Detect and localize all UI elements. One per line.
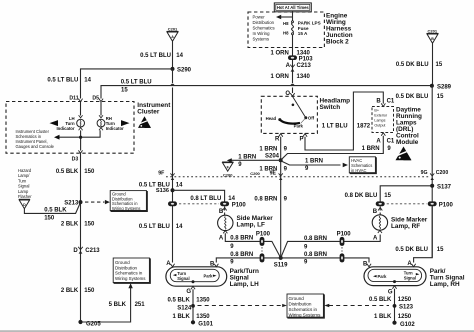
pin B of side marker LF (219, 206, 227, 215)
svg-text:P100: P100 (439, 202, 454, 208)
value label 1 ORN 1340 (lower) (270, 74, 310, 80)
wire BLK 150 from D3 down to G205 (80, 153, 82, 322)
reference text Power Distribution Schematics in Wiring Systems (253, 15, 275, 42)
wire hop over DK BLU wire at x292.5 (290, 84, 295, 86)
wire BLK 150 from flasher to S213 (24, 202, 80, 213)
value label 0.5 LT BLU 14 (below P100) (139, 224, 183, 230)
label Instrument Cluster (137, 102, 171, 115)
svg-text:Distribution: Distribution (289, 301, 312, 306)
fuse PARK LPS 15 A (292, 21, 294, 35)
wire 5 BLK 251 from ground box to G205 (82, 283, 133, 322)
svg-text:Distribution: Distribution (253, 20, 275, 25)
svg-text:S119: S119 (274, 262, 288, 268)
svg-text:0.5 BLK: 0.5 BLK (56, 169, 79, 175)
svg-text:Block 2: Block 2 (326, 38, 349, 45)
pin B of LH lamp (210, 261, 218, 267)
pin D11 of instrument cluster (69, 96, 82, 102)
svg-text:251: 251 (135, 302, 146, 308)
svg-text:1 BRN: 1 BRN (259, 166, 277, 172)
splice S290 (171, 67, 192, 74)
wire S289 down to pin 9G of C200 (431, 86, 433, 258)
svg-text:Schematics: Schematics (253, 26, 275, 31)
svg-text:C213: C213 (85, 248, 100, 254)
pin A of RH lamp (407, 261, 415, 267)
RH lamp internal bulbs circuit (368, 269, 422, 283)
dashed link between P100 grommets (179, 203, 219, 205)
svg-text:S290: S290 (177, 68, 192, 74)
svg-text:Park: Park (378, 274, 388, 279)
pin B of RH lamp (363, 261, 371, 267)
value label 0.8 BRN 9 (LH B to S119) (230, 252, 253, 266)
splice S137 (430, 184, 451, 191)
svg-text:H8: H8 (283, 31, 289, 36)
svg-text:150: 150 (84, 222, 95, 228)
value label 2 BLK 150 (above C213) (61, 222, 95, 228)
reference text Instrument Cluster Schematics in Instrument Panel, Gauges and Console (16, 129, 55, 149)
value label 0.5 LT BLU 15 (left end of long wire) (121, 79, 152, 93)
wire BRN 9 from side marker LF to S119 (225, 233, 280, 258)
svg-text:D: D (73, 248, 78, 254)
dashed reference link S123 to ground distribution box (324, 304, 389, 308)
svg-text:S124: S124 (177, 305, 192, 311)
junction (indicator return) (79, 136, 82, 139)
connector P100 grommet (RH park wire) (340, 253, 345, 262)
svg-text:0.5 LT BLU: 0.5 LT BLU (139, 224, 170, 230)
label B+ Exterior Lamps Output (374, 109, 387, 128)
pin A of side marker RF (373, 230, 382, 241)
svg-text:H8: H8 (283, 21, 289, 26)
svg-text:2 BLK: 2 BLK (61, 222, 79, 228)
arrow to other cluster circuits (left) (50, 120, 59, 126)
connector P103 (grommet) (288, 55, 313, 62)
arrow to power distribution reference (276, 15, 293, 20)
ground G205 (78, 320, 101, 327)
value label 2 BLK 150 (below C213) (61, 288, 95, 294)
connector C201 cavity A (triangle) (167, 27, 179, 42)
connector C213 pin A (in-line symbol) (286, 63, 312, 72)
value label 1 BRN 9 (below S204) (259, 166, 287, 172)
label Park/Turn Signal Lamp, RH (430, 268, 465, 288)
svg-text:15: 15 (436, 62, 443, 68)
svg-text:G: G (388, 290, 393, 296)
svg-text:1340: 1340 (297, 74, 311, 80)
svg-text:1 LT BLU: 1 LT BLU (322, 124, 348, 130)
svg-text:150: 150 (84, 169, 95, 175)
splice S119 (274, 256, 288, 268)
svg-text:D11: D11 (69, 96, 78, 102)
svg-text:14: 14 (176, 224, 183, 230)
svg-text:R: R (275, 137, 280, 143)
svg-text:in HVAC: in HVAC (351, 168, 366, 173)
connector C201 cavity B (triangle) (427, 29, 439, 44)
dashed reference link S213 to ground distribution (85, 200, 110, 204)
value label 0.8 LT BLU 14 (190, 196, 235, 202)
wire D5 to RH indicator bulb (100, 102, 102, 116)
wire from S290 left and down to cluster pin D11 (81, 69, 173, 99)
svg-text:P100: P100 (232, 202, 247, 208)
svg-text:C201: C201 (168, 27, 178, 32)
wire BRN 9 from S204 to HVAC reference (281, 161, 348, 167)
reference box Ground Distribution Schematics in Wiring Systems (above G205) (113, 258, 150, 283)
svg-text:Flasher: Flasher (18, 194, 32, 199)
dashed reference link S124 to ground distribution box (198, 305, 282, 307)
svg-text:0.8 BRN: 0.8 BRN (304, 252, 327, 258)
svg-text:Wiring Systems: Wiring Systems (115, 276, 146, 281)
value label 0.8 BRN 9 (S119 to RH B) (304, 252, 327, 266)
value label 0.5 BLK 1250 (369, 297, 412, 303)
svg-text:Wiring Systems: Wiring Systems (112, 206, 140, 211)
wire DK BLU 15 from C201-B down to S289 (432, 44, 434, 86)
value label 1 ORN 1340 (upper) (270, 51, 310, 57)
lamp LH Turn Indicator (56, 115, 84, 131)
svg-text:D5: D5 (92, 96, 99, 102)
svg-text:5 BLK: 5 BLK (109, 302, 127, 308)
svg-text:0.5 BLK: 0.5 BLK (167, 298, 190, 304)
svg-text:Module: Module (396, 139, 419, 146)
svg-text:1 ORN: 1 ORN (270, 74, 288, 80)
svg-text:Signal: Signal (404, 275, 416, 280)
svg-text:B+: B+ (374, 109, 379, 113)
svg-text:0.8 LT BLU: 0.8 LT BLU (190, 196, 221, 202)
value label 1 BLK 1250 (374, 314, 412, 320)
svg-text:1 BRN: 1 BRN (259, 146, 277, 152)
svg-text:In Wiring: In Wiring (253, 31, 271, 36)
svg-text:A: A (373, 235, 378, 241)
wire BRN 9 from LH lamp pin B through S119 to RH lamp pin B (216, 258, 369, 263)
headlamp switch contacts and arm (266, 96, 315, 128)
pin D5 of instrument cluster (92, 96, 103, 102)
label Hazard Lamp/Turn Signal Lamp Flasher (18, 168, 32, 199)
connector P100 grommet (main LT BLU wire) (168, 201, 177, 206)
svg-text:S204: S204 (265, 154, 280, 160)
svg-text:1250: 1250 (398, 297, 412, 303)
svg-text:0.8 BRN: 0.8 BRN (254, 197, 277, 203)
value label 0.5 LT BLU 14 (above S290) (140, 53, 184, 59)
dashed link between P100 grommets (right pair) (341, 247, 343, 252)
svg-text:B: B (376, 99, 381, 105)
svg-text:G: G (186, 289, 191, 295)
svg-text:Lamp, LF: Lamp, LF (237, 222, 265, 229)
svg-text:1 BRN: 1 BRN (362, 146, 380, 152)
value label 0.8 BRN 9 (S119 to RF) (304, 236, 327, 251)
svg-text:Switch: Switch (320, 104, 341, 111)
svg-text:Lamp, LH: Lamp, LH (230, 281, 259, 288)
label Side Marker Lamp, LF (237, 215, 274, 229)
instrument cluster (dashed box) (6, 102, 134, 154)
svg-text:C1: C1 (387, 138, 395, 144)
wire hop over DK BLU wire at x172.5 (170, 84, 175, 86)
value label 0.5 BLK 1350 (167, 298, 210, 304)
value label 5 BLK 251 (109, 302, 146, 308)
label Park/Turn Signal Lamp, LH (230, 268, 259, 288)
svg-text:1 ORN: 1 ORN (270, 51, 288, 57)
svg-text:Power: Power (253, 15, 266, 20)
ground G102 (392, 321, 415, 329)
pin A of LH lamp (166, 261, 174, 267)
wire BRN 9 from S204 left to C200 cavity F (227, 158, 281, 162)
value label PARK LPS Fuse 15 A (298, 21, 321, 36)
svg-text:15 A: 15 A (298, 31, 308, 36)
splice S289 (430, 84, 452, 91)
dashed link between P100 grommets (upper right pair) (387, 203, 427, 205)
svg-text:Schematics in: Schematics in (115, 271, 143, 276)
label Daytime Running Lamps (DRL) Control Module (396, 106, 422, 145)
svg-text:A: A (376, 138, 381, 144)
wire BLK 1250 from RH lamp G to G102 (394, 289, 396, 323)
svg-text:2 BLK: 2 BLK (61, 288, 79, 294)
wire S204 branch down to S119 (280, 162, 282, 256)
svg-text:0.8 BRN: 0.8 BRN (304, 236, 327, 242)
svg-text:A: A (286, 63, 291, 69)
svg-text:0.8 BRN: 0.8 BRN (230, 252, 253, 258)
value label 0.5 BLK 150 (56, 169, 95, 175)
svg-text:0.5 LT BLU: 0.5 LT BLU (121, 79, 152, 85)
headlamp switch (dashed box) (261, 96, 317, 133)
value label 0.5 LT BLU 14 (above S136) (139, 183, 183, 189)
svg-text:Ground: Ground (289, 296, 305, 301)
svg-text:P: P (299, 137, 303, 143)
svg-text:D: D (23, 203, 26, 207)
pin G of RH lamp (388, 286, 397, 296)
svg-text:1872: 1872 (357, 124, 371, 130)
svg-text:0.5 DK BLU: 0.5 DK BLU (396, 94, 429, 100)
svg-text:15: 15 (384, 193, 391, 199)
svg-text:Schematics in: Schematics in (289, 307, 318, 312)
connector C200 (dotted separator line) (166, 176, 429, 178)
value label 0.5 DK BLU 15 (below S289) (396, 94, 445, 100)
svg-text:G102: G102 (400, 322, 415, 328)
value label 1 BLK 1350 (172, 314, 210, 320)
label Side Marker Lamp, RF (391, 216, 428, 230)
connector C213 pin D (in-line symbol) (73, 247, 100, 254)
value label 0.5 DK BLU 15 (to RH lamp) (395, 247, 444, 253)
scan artifact bottom edge (0, 330, 474, 332)
svg-text:P103: P103 (299, 56, 314, 62)
svg-text:0.5 DK BLU: 0.5 DK BLU (396, 62, 429, 68)
svg-text:S137: S137 (437, 185, 452, 191)
svg-text:Lamp, RF: Lamp, RF (391, 223, 420, 230)
splice S204 (265, 154, 283, 163)
connector P100 grommet (side marker LF feed) (220, 201, 246, 208)
connector P100 grommet (LF turn wire) (256, 231, 271, 246)
svg-text:A: A (171, 35, 174, 39)
svg-text:Hot At All Times: Hot At All Times (277, 5, 310, 10)
svg-text:0.5 LT BLU: 0.5 LT BLU (47, 78, 78, 84)
LH lamp internal bulbs circuit (170, 269, 219, 283)
svg-text:S136: S136 (156, 188, 169, 194)
wire from Hot At All Times into fuse (292, 11, 294, 21)
pin D3 of instrument cluster (72, 150, 83, 162)
svg-text:0.8 DK BLU: 0.8 DK BLU (345, 193, 378, 199)
wire BRN 9 from S119 to side marker RF (281, 235, 381, 258)
label Engine Wiring Harness Junction Block 2 (326, 12, 353, 45)
lamp Park/Turn Signal RH (housing) (364, 267, 426, 286)
svg-text:1350: 1350 (196, 298, 210, 304)
value label 0.5 DK BLU 15 (above S289) (396, 62, 443, 68)
svg-text:14: 14 (228, 196, 235, 202)
pin B of side marker RF (373, 206, 383, 215)
pin R of headlamp switch (275, 134, 283, 143)
value label 1 BRN 9 (R wire) (259, 146, 287, 152)
svg-text:Lamps: Lamps (374, 119, 385, 123)
connector P100 grommet (RF feed) (376, 201, 385, 206)
junction block Engine Wiring Harness Junction Block 2 (dashed box) (248, 12, 324, 48)
svg-text:Indicator: Indicator (56, 126, 74, 131)
wire branch S136 to side marker LF (173, 190, 225, 201)
lamp Side Marker LF (218, 215, 233, 230)
svg-text:Wiring Systems: Wiring Systems (289, 312, 322, 317)
value label 1 LT BLU 1872 (322, 124, 371, 130)
svg-text:Systems: Systems (253, 37, 269, 42)
pin A C1 of DRL module (376, 133, 395, 145)
DRL control module (dashed box) (372, 107, 394, 133)
wire LT BLU 1872 from P to DRL pin B (305, 92, 383, 150)
ESD symbol (instrument cluster) (138, 116, 151, 128)
svg-text:Off: Off (308, 115, 315, 120)
lamp RH Turn Indicator (97, 115, 124, 131)
svg-text:1 BLK: 1 BLK (172, 314, 190, 320)
value label 0.8 BRN 9 (LF to P100) (230, 236, 253, 251)
value label 0.5 LT BLU 14 (D11 wire) (47, 78, 91, 84)
splice S123 (393, 304, 414, 311)
svg-text:C201: C201 (428, 29, 438, 34)
reference box Ground Distribution Schematics in Wiring Systems (bottom) (287, 294, 324, 318)
svg-text:1 BRN: 1 BRN (238, 154, 256, 160)
arrowhead into bottom ground box (left side) (282, 304, 287, 307)
svg-text:1 BLK: 1 BLK (374, 314, 392, 320)
svg-text:9G: 9G (421, 170, 428, 176)
svg-text:C200: C200 (436, 170, 449, 176)
svg-text:Ground: Ground (115, 260, 130, 265)
svg-text:Park: Park (204, 273, 214, 278)
svg-text:Lamp, RH: Lamp, RH (430, 281, 460, 288)
splice S136 (156, 188, 175, 194)
svg-text:15: 15 (121, 88, 128, 94)
wire DK BLU 15 from RH indicator D5 across to S289 (101, 86, 432, 99)
svg-text:S213: S213 (64, 201, 79, 207)
svg-text:S289: S289 (437, 84, 452, 90)
svg-text:Indicator: Indicator (106, 126, 124, 131)
wire BLK 1350 from LH lamp G to G101 (192, 289, 194, 322)
pin O of headlamp switch (285, 91, 294, 97)
power label Hot At All Times (274, 3, 311, 12)
value label 0.8 BRN 9 (above S119) (254, 197, 287, 203)
value label 1 BRN 9 (HVAC branch) (305, 159, 323, 172)
label Headlamp Switch (320, 98, 351, 112)
pin A of side marker LF (219, 231, 228, 242)
splice S124 (177, 304, 195, 311)
value label 1 BRN 9 (DRL output wire) (362, 146, 392, 152)
value label 0.8 DK BLU 15 (345, 193, 392, 199)
value label 0.5 BLK 150 (flasher wire) (44, 207, 67, 221)
wire DK BLU 15 from P100 down to RH lamp pin A (414, 206, 433, 262)
reference box HVAC Schematics in HVAC (349, 157, 376, 173)
wire BRN 9 from R down to S204 (280, 137, 282, 159)
svg-text:1 BRN: 1 BRN (305, 159, 323, 165)
pin 9F of C200 (158, 171, 174, 180)
wire RF side marker branch from S137 (380, 186, 432, 202)
value label 1 BRN 9 (C200 branch) (238, 154, 256, 168)
lamp Side Marker RF (372, 215, 387, 230)
svg-text:A: A (219, 235, 224, 241)
svg-text:Distribution: Distribution (115, 265, 138, 270)
pin 9E of C200 (270, 171, 283, 180)
wire D11 to LH indicator bulb (80, 102, 82, 116)
svg-text:14: 14 (176, 53, 183, 59)
pin 9G of C200 (421, 170, 449, 180)
connector P100 grommet (main DK BLU wire) (428, 201, 454, 208)
reference box Ground Distribution Schematics in Wiring Systems (right of S213) (110, 191, 147, 211)
svg-text:150: 150 (44, 216, 55, 222)
svg-text:Signal: Signal (177, 276, 189, 281)
svg-text:C200: C200 (223, 172, 233, 177)
svg-text:P100: P100 (337, 231, 352, 237)
splice S213 (64, 200, 82, 207)
svg-text:Head: Head (266, 116, 277, 121)
svg-text:G101: G101 (198, 322, 213, 328)
svg-text:Output: Output (374, 124, 385, 128)
pin B C1 of DRL module (376, 99, 395, 107)
svg-text:15: 15 (437, 247, 444, 253)
svg-text:C213: C213 (297, 63, 312, 69)
connector P100 grommet (RF turn wire) (337, 231, 352, 246)
svg-text:Cluster: Cluster (137, 109, 160, 116)
svg-text:0.5 BLK: 0.5 BLK (369, 297, 392, 303)
lamp Park/Turn Signal LH (housing) (166, 267, 227, 286)
svg-text:150: 150 (84, 288, 95, 294)
svg-text:14: 14 (176, 183, 183, 189)
svg-text:D3: D3 (72, 157, 79, 163)
svg-text:15: 15 (437, 94, 444, 100)
svg-text:S123: S123 (399, 305, 414, 311)
svg-text:9F: 9F (158, 171, 164, 177)
svg-text:0.5 DK BLU: 0.5 DK BLU (395, 247, 428, 253)
svg-text:Gauges and Console: Gauges and Console (16, 144, 55, 149)
svg-text:0.8 BRN: 0.8 BRN (230, 236, 253, 242)
svg-text:Exterior: Exterior (374, 114, 387, 118)
arrow to other cluster circuits (right) (121, 120, 130, 126)
svg-text:1250: 1250 (398, 314, 412, 320)
svg-text:B: B (431, 37, 434, 41)
connector C200 cavity F (triangle) (222, 162, 233, 177)
dashed link between P100 grommets (left pair) (261, 247, 263, 252)
ground G101 (191, 320, 214, 328)
svg-text:P100: P100 (256, 231, 271, 237)
svg-text:B: B (373, 209, 378, 215)
connector P100 grommet (LH park wire) (260, 253, 265, 262)
wire ORN 1340 from fuse to headlamp switch pin O (292, 35, 294, 83)
wire S290 down to pin 9F of C200 (172, 69, 174, 83)
svg-text:1350: 1350 (196, 314, 210, 320)
svg-text:Park: Park (294, 123, 304, 128)
svg-text:C1: C1 (387, 99, 395, 105)
connector triangle hazard flasher (19, 199, 30, 208)
pin P of headlamp switch (299, 134, 307, 143)
wire common indicator return inside cluster (54, 130, 100, 150)
svg-text:0.5 LT BLU: 0.5 LT BLU (140, 53, 171, 59)
svg-text:14: 14 (84, 78, 91, 84)
wire BRN 9 from DRL pin A to S204 (281, 136, 383, 160)
ESD symbol (DRL module) (396, 147, 412, 161)
svg-text:0.5 BLK: 0.5 BLK (44, 207, 67, 213)
pin G of LH lamp (186, 286, 195, 295)
wire LT BLU 14 from C201-A down to S290 (172, 42, 174, 69)
